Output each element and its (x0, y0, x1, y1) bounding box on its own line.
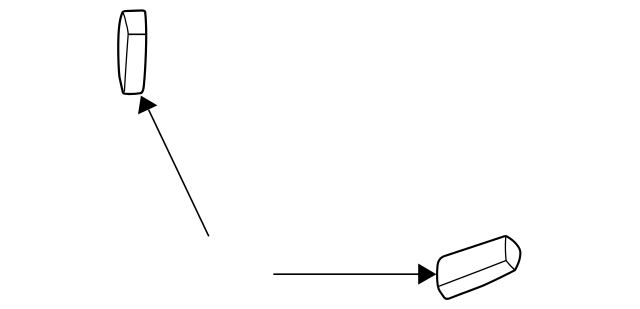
pad top-face edge (128, 33, 145, 35)
arrow to pad (138, 96, 209, 237)
bar end-bottom edge (506, 261, 515, 270)
pad front-left edge (124, 34, 128, 91)
arrow to bar (273, 264, 436, 285)
bar outer outline (437, 236, 520, 299)
pad side crease (123, 13, 128, 34)
bar long top-front edge (439, 261, 507, 287)
bar end-face edge (504, 236, 507, 260)
pad outer outline (118, 10, 146, 93)
